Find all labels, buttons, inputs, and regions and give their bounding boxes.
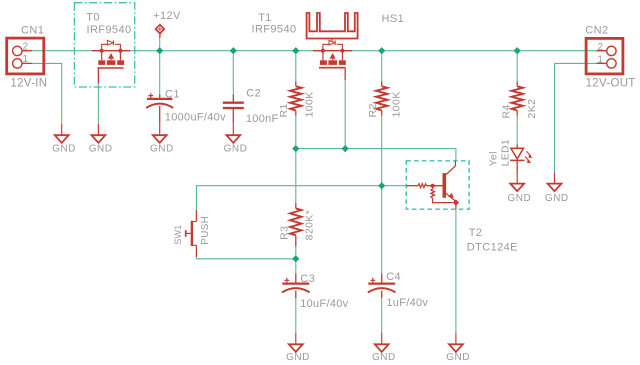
junction gate net at T1 gate xyxy=(342,145,349,152)
svg-text:IRF9540: IRF9540 xyxy=(252,24,297,36)
junction rail at +12V xyxy=(156,47,163,54)
svg-text:GND: GND xyxy=(372,352,396,363)
svg-text:100K: 100K xyxy=(304,91,316,117)
wire R3 bottom to C3 xyxy=(295,247,297,274)
svg-text:+12V: +12V xyxy=(153,10,181,22)
wire base net SW1 to T2 xyxy=(196,186,406,210)
svg-text:GND: GND xyxy=(446,352,470,363)
transistor T2 (DTC124E digital NPN) xyxy=(406,161,459,209)
ground under C2 xyxy=(226,124,240,143)
svg-text:GND: GND xyxy=(286,352,310,363)
svg-text:R2: R2 xyxy=(367,103,379,117)
wire rail to C2 xyxy=(232,51,234,94)
svg-text:12V-OUT: 12V-OUT xyxy=(586,78,636,90)
wire rail to R2 xyxy=(381,51,383,82)
svg-text:CN2: CN2 xyxy=(585,25,608,37)
ground under C1 xyxy=(153,124,167,143)
wire R4 to LED1 xyxy=(516,116,518,145)
svg-text:C4: C4 xyxy=(386,271,401,283)
capacitor C2 xyxy=(223,94,244,123)
junction rail at C2 xyxy=(230,47,237,54)
svg-text:GND: GND xyxy=(150,143,174,154)
svg-text:10uF/40v: 10uF/40v xyxy=(300,298,348,310)
resistor R3 xyxy=(290,203,301,247)
ground under CN2 pin1 xyxy=(548,172,562,191)
svg-text:1: 1 xyxy=(23,54,29,65)
ground under C4 xyxy=(375,333,389,352)
svg-text:2: 2 xyxy=(597,42,603,53)
wire R2 to base net xyxy=(381,116,383,186)
capacitor C4 xyxy=(368,274,396,299)
svg-text:1000uF/40v: 1000uF/40v xyxy=(165,111,226,123)
svg-text:2K2: 2K2 xyxy=(526,99,538,119)
svg-text:GND: GND xyxy=(224,143,248,154)
wire base net to C4 xyxy=(381,186,383,274)
wire C4 to ground xyxy=(381,298,383,333)
wire R1 to gate net xyxy=(295,116,297,149)
ground under LED1 xyxy=(510,172,524,191)
svg-text:T0: T0 xyxy=(86,11,100,23)
svg-text:T2: T2 xyxy=(469,227,483,239)
junction SW1 bottom at R3/C3 xyxy=(292,255,299,262)
svg-text:820K*: 820K* xyxy=(303,210,315,241)
heatsink HS1 xyxy=(307,13,358,39)
wire CN1 pin1 to ground drop xyxy=(22,63,62,123)
ground under C3 xyxy=(289,333,303,352)
svg-text:100K: 100K xyxy=(391,91,403,117)
svg-text:T1: T1 xyxy=(258,12,272,24)
wire rail to R1 xyxy=(295,51,297,82)
wire C3 to ground xyxy=(295,298,297,333)
svg-text:HS1: HS1 xyxy=(382,13,405,25)
junction base net at R2 xyxy=(378,182,385,189)
svg-text:IRF9540: IRF9540 xyxy=(87,24,132,36)
connector CN1 xyxy=(7,38,44,74)
svg-text:1: 1 xyxy=(597,54,603,65)
wire heatsink stub xyxy=(331,39,333,42)
svg-text:2: 2 xyxy=(23,41,29,52)
svg-text:SW1: SW1 xyxy=(173,224,183,244)
svg-text:DTC124E: DTC124E xyxy=(467,241,518,253)
junction rail at R4 xyxy=(514,47,521,54)
wire T2 emitter to ground xyxy=(455,209,457,333)
junction rail at R1 xyxy=(292,47,299,54)
svg-text:C2: C2 xyxy=(246,88,261,100)
ground under T2 emitter xyxy=(449,333,463,352)
capacitor C1 xyxy=(146,93,173,124)
junction rail at R2 xyxy=(378,47,385,54)
svg-text:100nF: 100nF xyxy=(246,113,279,125)
svg-text:Yel: Yel xyxy=(488,151,500,166)
svg-text:GND: GND xyxy=(52,143,76,154)
transistor T0 (IRF9540 PMOS) xyxy=(92,40,131,83)
svg-text:1uF/40v: 1uF/40v xyxy=(386,297,428,309)
svg-text:GND: GND xyxy=(545,193,569,204)
LED LED1 xyxy=(510,144,532,173)
svg-text:R1: R1 xyxy=(278,103,290,117)
svg-text:PUSH: PUSH xyxy=(200,216,211,245)
ground under T0 gate xyxy=(92,124,106,143)
transistor T1 (IRF9540 PMOS) xyxy=(313,40,352,80)
ground under CN1 pin1 xyxy=(55,124,69,143)
wire +12V supply stub xyxy=(159,38,161,51)
svg-text:C3: C3 xyxy=(300,273,315,285)
wire 12V rail xyxy=(22,50,607,52)
svg-text:GND: GND xyxy=(508,193,532,204)
svg-text:CN1: CN1 xyxy=(21,24,44,36)
svg-text:LED1: LED1 xyxy=(500,139,512,166)
dash-dot box around T0 xyxy=(74,3,134,87)
capacitor C3 xyxy=(282,274,310,299)
wire gate net horizontal to T2 collector xyxy=(296,149,456,161)
svg-text:GND: GND xyxy=(89,143,113,154)
wire rail to R4 xyxy=(516,51,518,82)
wire SW1 bottom net xyxy=(196,257,295,259)
svg-text:R4: R4 xyxy=(500,104,512,118)
resistor R1 xyxy=(290,81,301,115)
wire R3 top drop xyxy=(295,149,297,203)
resistor R2 xyxy=(376,81,387,115)
resistor R4 xyxy=(512,81,523,115)
connector CN2 xyxy=(586,38,623,74)
dashed box around T2 xyxy=(406,161,469,209)
wire rail to C1 xyxy=(159,51,161,94)
wire T1 gate drop xyxy=(344,80,346,149)
switch SW1 xyxy=(186,210,197,257)
wire T0 gate to ground xyxy=(97,83,99,123)
junction gate net at R1/R3 xyxy=(292,145,299,152)
svg-text:R3: R3 xyxy=(278,226,290,240)
supply +12V xyxy=(156,25,165,38)
wire CN2 pin1 to ground drop xyxy=(555,63,607,172)
svg-text:C1: C1 xyxy=(165,88,180,100)
svg-text:12V-IN: 12V-IN xyxy=(10,78,47,90)
